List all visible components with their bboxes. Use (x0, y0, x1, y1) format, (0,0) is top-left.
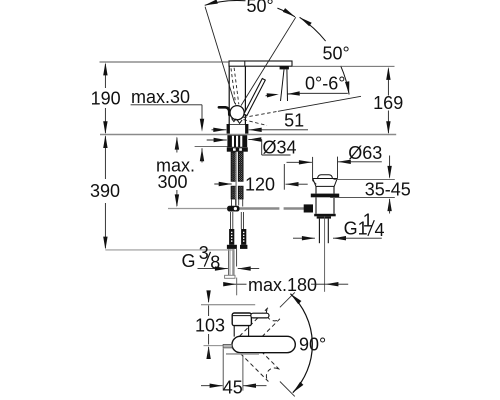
angle ray 1 (left 50deg ray) (205, 7, 235, 104)
plan top reference line (201, 304, 255, 306)
drain axis line (324, 217, 326, 292)
drain clamp band (311, 194, 339, 198)
plan lever bar (251, 313, 269, 318)
plan handle body (232, 313, 251, 326)
angle ray 2 (middle ray) (241, 17, 296, 105)
dim 103 (208, 293, 210, 303)
drain plug dome (318, 175, 333, 179)
svg-text:50°: 50° (247, 0, 274, 16)
svg-text:120: 120 (245, 174, 275, 194)
max300 reference / rod line (168, 208, 227, 210)
mounting underside reference line (195, 146, 232, 148)
spout inlet notch (223, 344, 232, 348)
svg-text:G: G (182, 251, 196, 271)
flexible hoses (braided) (231, 152, 236, 181)
arc 50deg (top), two pieces around text (205, 0, 246, 5)
svg-text:300: 300 (158, 172, 188, 192)
deck bottom edge near faucet (207, 139, 227, 141)
svg-text:max.180: max.180 (248, 275, 317, 295)
faucet base flange (227, 124, 230, 133)
90deg swing arc (290, 294, 312, 393)
dim 51 (212, 129, 227, 131)
svg-text:51: 51 (284, 110, 304, 130)
water jet lines 0-6 deg (281, 70, 285, 102)
svg-text:190: 190 (91, 88, 121, 108)
cartridge chevron marks (232, 118, 237, 121)
rod connector on drain (304, 204, 313, 212)
0-6 deg arrows (266, 94, 272, 97)
dim max.180 (225, 283, 237, 285)
plan notch reference line (204, 345, 224, 347)
arc2 top arrowhead (300, 17, 312, 26)
dim 35-45 (334, 178, 395, 180)
tail foot (225, 275, 235, 278)
arc2 bottom arrowhead (345, 81, 349, 94)
angle ray 3 (horizontal-ish ray, dashed near ball) (244, 111, 279, 117)
spout bar (horizontal spout) (229, 61, 292, 66)
drain body lower (315, 197, 317, 214)
mounting nut (227, 135, 247, 147)
dim G1 1/4 (293, 237, 315, 239)
dim 120 (214, 183, 231, 185)
plan spout stadium (232, 336, 295, 352)
tailpipe (318, 219, 320, 244)
svg-text:50°: 50° (323, 44, 350, 64)
dim 190 (100, 61, 230, 63)
drain flange (313, 179, 337, 187)
dim 390 (104, 136, 106, 179)
arc 50deg left arrowhead (205, 0, 218, 5)
spout/body divider (244, 61, 246, 66)
dashed swung spout (up-right 45deg) (235, 307, 280, 352)
G3/8 threaded tails (228, 249, 230, 275)
axis extension 45deg (280, 382, 295, 397)
0-6 label leader underline (300, 92, 348, 94)
svg-text:Ø63: Ø63 (348, 143, 382, 163)
pop-up rod horizontal (227, 207, 279, 209)
dim 45 (201, 385, 223, 387)
svg-text:90°: 90° (299, 334, 326, 354)
aerator outlet (280, 66, 289, 69)
dim G 3/8 (198, 268, 228, 270)
lever arm (50 deg raised position) (244, 79, 265, 116)
hose end sleeves (229, 229, 234, 245)
hose lines below elbow (230, 212, 232, 229)
dashed ray down (6 deg) (244, 120, 268, 126)
svg-text:45: 45 (223, 377, 243, 397)
svg-text:169: 169 (373, 93, 403, 113)
svg-text:390: 390 (90, 181, 120, 201)
svg-text:Ø34: Ø34 (263, 137, 297, 157)
svg-text:35-45: 35-45 (365, 179, 411, 199)
svg-text:103: 103 (195, 315, 225, 335)
side handle hook (left position) (219, 107, 229, 115)
hose lines above elbow (231, 199, 233, 207)
plan neck (233, 326, 235, 337)
washer band (227, 147, 248, 151)
svg-text:0°-6°: 0°-6° (305, 74, 345, 94)
svg-text:4: 4 (375, 220, 385, 240)
dim 169 (292, 65, 395, 67)
gray shadow under stadium (226, 353, 259, 355)
axis extension -45deg (280, 292, 295, 307)
rod elbow joint (227, 206, 239, 212)
dim diameter 34 (207, 139, 215, 141)
dim diameter 63 (287, 161, 312, 163)
svg-text:max.30: max.30 (131, 87, 190, 107)
svg-text:8: 8 (210, 252, 220, 272)
drain lower band (314, 214, 336, 217)
faucet body column (228, 66, 230, 124)
pop-up rod vertical (235, 152, 237, 206)
deck / countertop line (100, 134, 396, 136)
handle ball joint (230, 106, 244, 120)
dashed lever (vertical position) (231, 68, 236, 104)
hose end caps (227, 245, 237, 249)
arc 50deg (second), two pieces around text (300, 17, 326, 41)
drain body upper (315, 186, 317, 193)
arc 50deg right arrowhead (283, 8, 295, 17)
